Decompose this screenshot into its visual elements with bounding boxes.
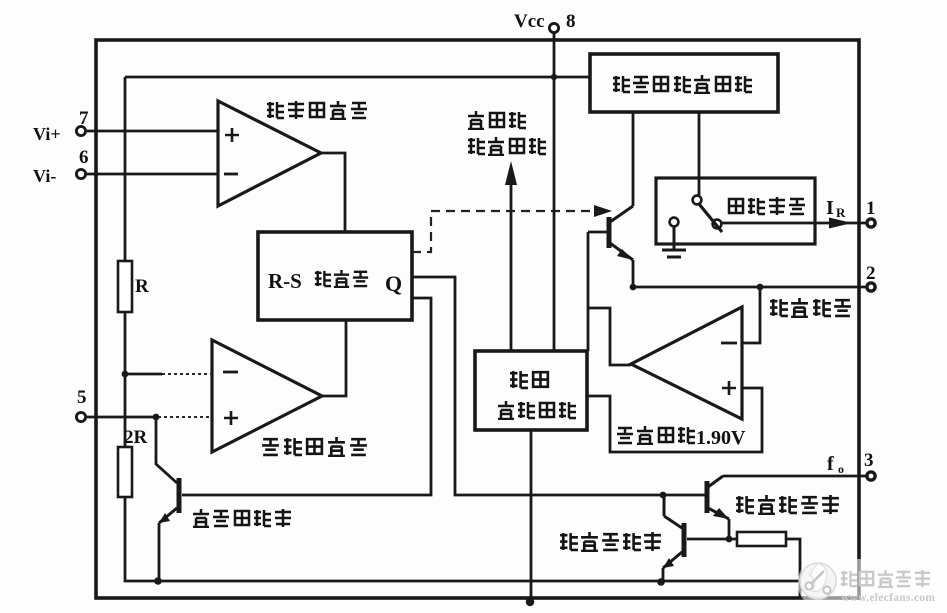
svg-text:R: R (836, 205, 846, 220)
svg-text:Q: Q (385, 271, 402, 296)
svg-text:1.90V: 1.90V (696, 427, 746, 449)
svg-text:2: 2 (866, 263, 876, 284)
svg-text:6: 6 (79, 147, 89, 168)
svg-text:f: f (827, 453, 834, 475)
svg-text:3: 3 (864, 450, 874, 471)
svg-text:1: 1 (866, 198, 876, 219)
svg-text:Vi-: Vi- (33, 166, 56, 186)
svg-text:www.elecfans.com: www.elecfans.com (841, 592, 935, 604)
svg-text:2R: 2R (124, 427, 148, 448)
svg-text:Vcc: Vcc (514, 11, 545, 32)
svg-text:8: 8 (566, 11, 576, 32)
svg-text:5: 5 (77, 387, 87, 408)
svg-text:Vi+: Vi+ (33, 124, 61, 144)
svg-text:R-S: R-S (268, 269, 302, 293)
svg-text:o: o (838, 462, 844, 476)
svg-text:I: I (826, 197, 834, 219)
svg-text:7: 7 (79, 108, 89, 129)
svg-text:R: R (135, 276, 149, 297)
